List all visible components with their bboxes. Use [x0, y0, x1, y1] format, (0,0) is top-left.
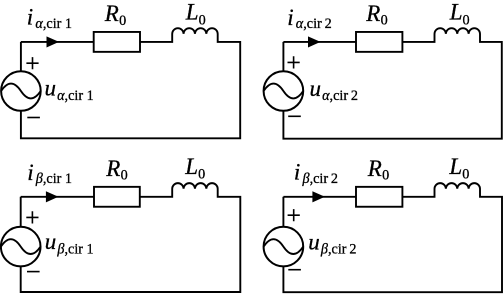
svg-text:0: 0	[199, 12, 206, 28]
svg-text:i: i	[294, 160, 300, 185]
svg-text:α,cir 1: α,cir 1	[57, 88, 94, 104]
svg-text:L: L	[185, 0, 199, 25]
svg-text:0: 0	[198, 167, 205, 183]
svg-text:α,cir 1: α,cir 1	[35, 16, 72, 32]
svg-text:R: R	[365, 1, 380, 26]
svg-text:0: 0	[381, 13, 388, 29]
svg-text:u: u	[308, 229, 320, 254]
svg-text:0: 0	[462, 167, 469, 183]
svg-text:i: i	[27, 5, 33, 30]
svg-text:0: 0	[119, 13, 126, 29]
svg-text:u: u	[45, 229, 57, 254]
svg-text:u: u	[45, 76, 57, 101]
svg-text:β,cir 1: β,cir 1	[56, 242, 93, 258]
svg-text:α,cir 2: α,cir 2	[296, 16, 332, 32]
svg-text:R: R	[367, 156, 382, 181]
svg-text:β,cir 2: β,cir 2	[302, 171, 339, 187]
svg-text:L: L	[184, 154, 198, 179]
svg-text:0: 0	[382, 168, 389, 184]
svg-text:β,cir 2: β,cir 2	[320, 242, 357, 258]
svg-text:0: 0	[121, 168, 128, 184]
svg-text:i: i	[27, 160, 33, 185]
svg-text:R: R	[105, 156, 120, 181]
svg-text:L: L	[449, 0, 463, 25]
svg-text:0: 0	[463, 12, 470, 28]
svg-text:α,cir 2: α,cir 2	[322, 88, 358, 104]
svg-text:R: R	[104, 1, 119, 26]
svg-text:β,cir 1: β,cir 1	[35, 171, 72, 187]
svg-text:i: i	[287, 5, 293, 30]
svg-text:L: L	[448, 154, 462, 179]
svg-text:u: u	[310, 76, 322, 101]
